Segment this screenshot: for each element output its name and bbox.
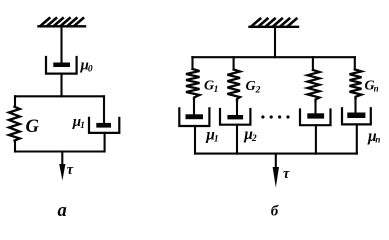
wire top bar (fig b) bbox=[192, 56, 355, 58]
dashpot piston 4 (fig b) bbox=[347, 113, 365, 119]
spring G bbox=[9, 107, 20, 141]
spring G2 bbox=[227, 70, 240, 101]
dashpot mu0 piston bbox=[53, 63, 70, 68]
svg-text:μ1: μ1 bbox=[205, 127, 218, 145]
svg-text:μ0: μ0 bbox=[80, 57, 93, 74]
fixed support (fig b) bbox=[250, 19, 299, 27]
svg-text:μn: μn bbox=[367, 128, 380, 145]
svg-text:а: а bbox=[58, 201, 67, 221]
wire dashpot mu0 to box bbox=[60, 74, 62, 97]
wire branch1 top stub bbox=[191, 57, 193, 69]
wire spring3 to piston bbox=[314, 101, 316, 113]
svg-text:G1: G1 bbox=[204, 79, 218, 96]
wire spring G2 to piston bbox=[236, 101, 238, 116]
wire branch2 top stub bbox=[233, 57, 235, 69]
wire left top stub bbox=[14, 96, 16, 107]
wire cup2 to bottom bar bbox=[236, 125, 238, 154]
wire branch4 top stub bbox=[354, 57, 356, 69]
svg-text:τ: τ bbox=[283, 166, 290, 182]
wire support to top bar (fig b) bbox=[274, 27, 276, 57]
svg-text:μ2: μ2 bbox=[243, 126, 257, 144]
wire left bottom stub bbox=[14, 141, 16, 152]
wire cup1 to bottom bar bbox=[194, 126, 196, 154]
svg-text:G2: G2 bbox=[246, 79, 261, 96]
spring G3 bbox=[308, 70, 320, 101]
dashpot piston 3 (fig b) bbox=[307, 113, 324, 118]
wire box top bbox=[15, 95, 104, 97]
dashpot cup 3 (fig b) bbox=[300, 110, 331, 126]
svg-text:G: G bbox=[26, 117, 40, 137]
ellipsis dots bbox=[261, 115, 289, 118]
spring Gn bbox=[350, 70, 362, 99]
dashpot piston 1 (fig b) bbox=[186, 114, 204, 119]
wire spring G1 to piston bbox=[193, 99, 195, 115]
arrow tau (fig a) bbox=[59, 152, 65, 181]
wire dashpot mu1 to box bottom bbox=[104, 133, 106, 152]
svg-text:τ: τ bbox=[67, 162, 74, 178]
wire cup3 to bottom bar bbox=[315, 125, 317, 153]
dashpot piston 2 (fig b) bbox=[227, 115, 243, 119]
dashpot cup 4 (fig b) bbox=[342, 108, 371, 124]
dashpot mu1 cup (fig a) bbox=[89, 118, 119, 133]
arrow tau (fig b) bbox=[273, 154, 279, 188]
wire support to dashpot mu0 bbox=[60, 27, 62, 63]
wire cup4 to bottom bar bbox=[356, 124, 358, 153]
dashpot mu0 cup bbox=[46, 57, 77, 74]
svg-text:μ1: μ1 bbox=[72, 114, 85, 131]
wire right top stub bbox=[103, 96, 105, 123]
dashpot cup 2 (fig b) bbox=[220, 109, 250, 125]
wire spring Gn to piston bbox=[354, 99, 356, 113]
wire box bottom bbox=[15, 150, 104, 152]
wire bottom bar (fig b) bbox=[195, 153, 357, 155]
spring G1 bbox=[186, 69, 200, 99]
svg-text:б: б bbox=[271, 204, 279, 220]
dashpot mu1 piston (fig a) bbox=[96, 123, 111, 128]
dashpot cup 1 (fig b) bbox=[179, 108, 209, 126]
fixed support (fig a) bbox=[39, 18, 86, 26]
svg-text:Gn: Gn bbox=[365, 79, 379, 94]
wire branch3 top stub bbox=[312, 57, 314, 70]
